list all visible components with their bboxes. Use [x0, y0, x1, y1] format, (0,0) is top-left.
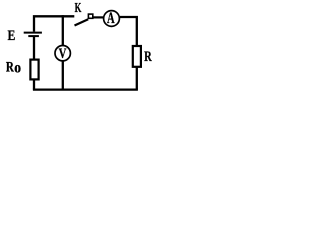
svg-text:R: R — [144, 47, 152, 64]
svg-text:K: K — [75, 0, 82, 16]
svg-text:A: A — [107, 9, 115, 27]
svg-text:0: 0 — [14, 62, 21, 75]
svg-text:R: R — [6, 59, 15, 75]
svg-text:E: E — [8, 27, 16, 44]
svg-text:V: V — [59, 44, 67, 61]
